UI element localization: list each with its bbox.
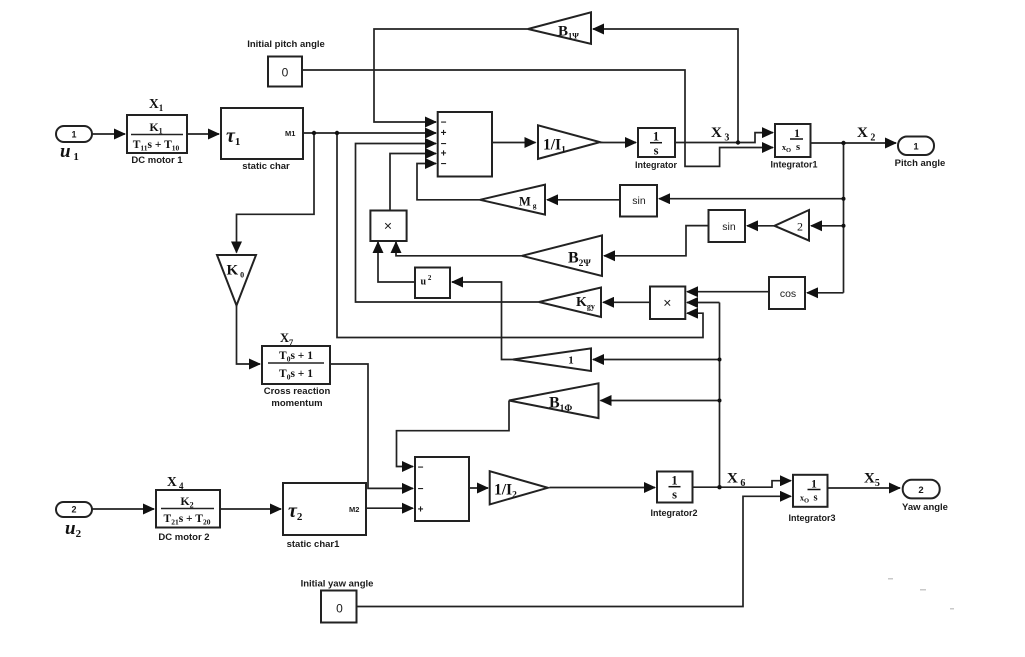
wire: x2 feedback vertical [843,143,845,293]
faint artifacts [888,578,954,610]
gain B1phi [509,383,599,418]
inport 1 oval [56,126,92,142]
svg-text:sin: sin [632,195,646,207]
wire: sum2 output to gain 1/I2 [469,487,488,489]
svg-text:×: × [384,218,392,234]
wire: DC motor 1 to static char [187,133,219,135]
svg-text:+: + [441,149,447,160]
block: product1 [370,211,406,242]
wire: x2 to gain 2 [811,225,844,227]
wire: M1 branch to product2 input 3 [337,133,703,338]
svg-text:M2: M2 [349,505,359,514]
junction: node x6 feedback tap [717,485,721,489]
junction: M1 branch to K0 [312,131,316,135]
svg-text:−: − [418,463,424,474]
svg-text:2: 2 [71,505,76,515]
gain 1/I2 [490,471,548,504]
gain B2psi [522,235,602,276]
svg-text:Initial yaw angle: Initial yaw angle [301,579,374,590]
wire: x6 to gain 1 [593,359,720,361]
wire: Integrator output x3 to Integrator1 input 1 [675,133,773,143]
block: DC motor 2 [156,490,220,528]
svg-text:Pitch angle: Pitch angle [895,158,946,169]
block: sin [620,185,657,217]
svg-text:−: − [441,118,447,129]
wire: K0 output to Cross reaction block [237,306,261,365]
wire: product1 output to sum1 input 4 [390,154,436,211]
wire: Kgy output to sum1 input 3 [356,144,540,303]
svg-text:0: 0 [336,602,343,616]
wire: M1 output of static char to sum1 input 2 [303,132,436,134]
svg-text:Cross reaction: Cross reaction [264,386,331,397]
block: Initial yaw angle constant [321,591,357,623]
wire: sin1 output to gain B2psi [604,226,709,256]
gain 1 [513,348,591,371]
svg-text:X5: X5 [864,471,880,490]
svg-text:u2: u2 [65,518,82,540]
svg-text:DC motor 2: DC motor 2 [158,532,209,543]
svg-text:1: 1 [71,130,76,140]
wire: sin output to gain Mg [547,199,620,201]
svg-text:momentum: momentum [271,398,322,409]
gain Kgy [539,288,601,318]
wire: x3 feedback up to gain B1psi [593,29,738,143]
block: Integrator [638,128,675,157]
svg-text:1: 1 [794,128,800,140]
svg-text:M1: M1 [285,129,295,138]
outport 1 oval [898,137,934,156]
svg-text:×: × [663,295,671,311]
svg-text:X1: X1 [149,96,164,113]
block: product2 [650,287,685,320]
junction: x6 to gain 1 branch [718,358,722,362]
block: sum1 [438,112,492,177]
block: static char (tau1) [221,108,303,159]
svg-text:X 3: X 3 [711,125,729,144]
gain B1psi [528,12,591,44]
block: Cross reaction momentum [262,346,330,384]
svg-text:s: s [672,488,677,502]
wire: sum1 output to gain 1/I1 [492,142,536,144]
wire: M2 output to sum2 input 3 [366,507,413,509]
svg-text:Integrator3: Integrator3 [788,513,835,523]
block: u squared [415,268,450,299]
wire: Cross reaction output to sum2 input 2 [330,364,413,488]
wire: u2 squarer output up into product1 [378,242,415,282]
wire: Integrator1 output x2 to Pitch angle outport [811,142,897,144]
block: Initial pitch angle constant [268,57,302,87]
svg-text:s: s [796,142,800,153]
svg-text:T0s + 1: T0s + 1 [279,350,313,364]
block: DC motor 1 [127,115,187,153]
block: cos [769,277,805,309]
svg-text:−: − [418,484,424,495]
svg-text:sin: sin [722,221,736,233]
svg-text:static char1: static char1 [287,539,341,550]
svg-text:1: 1 [913,142,919,153]
svg-text:Initial pitch angle: Initial pitch angle [247,39,325,50]
wire: x2 to sin block [659,198,844,200]
wire: inport1 to DC motor 1 [92,133,125,135]
svg-text:Integrator: Integrator [635,160,678,170]
svg-text:0: 0 [282,66,289,80]
wire: B1phi output to sum2 input 1 [397,401,510,467]
svg-text:X 2: X 2 [857,125,875,144]
svg-text:2: 2 [797,220,803,234]
svg-text:u 1: u 1 [60,141,79,163]
wire: Integrator2 output x6 to Integrator3 input 1 [693,481,792,488]
svg-text:X 4: X 4 [167,474,184,491]
junction: x2 to gain 2 branch [842,224,846,228]
svg-text:X 6: X 6 [727,471,745,490]
wire: 1/I1 output to Integrator [600,142,636,144]
gain 2 [775,210,810,241]
wire: x6 to product2 input 2 [687,302,720,304]
wire: Initial yaw angle constant to Integrator3 input 2 [357,496,792,606]
svg-text:cos: cos [780,288,796,300]
wire: 1/I2 output to Integrator2 [550,487,656,489]
svg-text:1: 1 [671,474,677,488]
svg-text:−: − [441,159,447,170]
outport 2 oval [903,480,940,499]
wire: cos output to product2 input 1 [687,291,769,293]
wire: inport2 to DC motor 2 [92,508,154,510]
gain Mg [480,185,545,215]
wire: gain 1 output to u2 squarer [452,282,513,360]
svg-text:s: s [654,144,659,158]
wire: Integrator3 output x5 to Yaw angle outport [828,487,901,489]
junction: node x3 feedback tap [736,140,740,144]
svg-text:Yaw angle: Yaw angle [902,502,948,513]
gain 1/I1 [538,125,600,159]
wire: Mg output to sum1 input 5 [417,164,480,200]
wire: M1 branch down to gain K0 [237,133,315,253]
block: Integrator1 [775,124,811,157]
block: static char1 (tau2) [283,483,366,535]
block: Integrator2 [657,472,693,503]
svg-text:1: 1 [811,479,817,491]
wire: x6 to gain B1phi [601,400,720,402]
wire: DC motor 2 to static char1 [220,508,281,510]
svg-text:DC motor 1: DC motor 1 [131,155,183,166]
svg-text:Integrator2: Integrator2 [650,508,697,518]
junction: x6 to B1phi branch [718,399,722,403]
svg-text:+: + [441,128,447,139]
svg-text:s: s [814,493,818,504]
wire: x2 to cos block [807,292,844,294]
svg-text:+: + [418,505,424,516]
wire: x6 feedback vertical [719,303,721,488]
svg-text:1: 1 [653,130,659,144]
svg-text:1: 1 [568,355,574,367]
svg-text:T0s + 1: T0s + 1 [279,368,313,382]
svg-text:Integrator1: Integrator1 [770,160,817,170]
svg-text:2: 2 [918,485,923,496]
junction: M1 branch to product2 [335,131,339,135]
wire: B2psi output up into product1 [396,242,522,256]
junction: x2 to sin branch [842,197,846,201]
wire: gain 2 output to sin1 block [747,225,775,227]
wire: B1psi output to sum1 input 1 [374,29,528,122]
wire: Initial pitch angle constant to Integrator1 input 2 [302,70,773,166]
wire: product2 output to gain Kgy [603,301,650,303]
block: Integrator3 [793,475,828,507]
gain K0 [217,255,256,306]
block: sin1 [709,210,746,242]
svg-text:X7: X7 [280,331,294,347]
junction: node x2 feedback tap [841,141,845,145]
block: sum2 [415,457,469,521]
svg-text:static char: static char [242,161,290,172]
inport 2 oval [56,502,92,517]
